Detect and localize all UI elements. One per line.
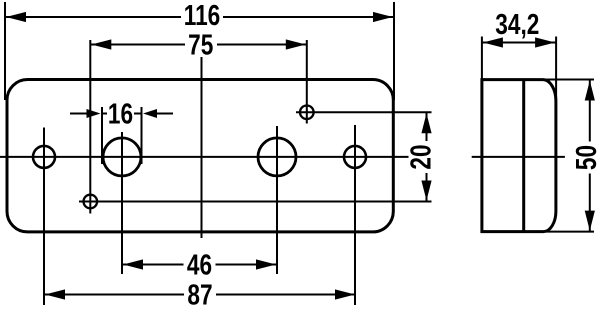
dim 16 arrow right outside	[156, 113, 173, 115]
hole H3	[258, 138, 296, 176]
dim 50 arrow up	[585, 81, 595, 101]
dim 46 label	[184, 253, 216, 277]
dim 75 arrow left	[91, 39, 111, 49]
dim 20 label rotated	[409, 141, 433, 173]
dim 34.2 arrow right	[535, 37, 555, 47]
dim 116 ext left	[4, 2, 6, 100]
svg-text:75: 75	[188, 28, 213, 61]
hole H4	[344, 146, 366, 168]
dim 87 label	[184, 283, 216, 307]
dim 34.2 arrow left	[483, 37, 503, 47]
dim 50 arrow down	[585, 211, 595, 231]
dim 34.2 ext left	[481, 37, 483, 80]
hole H1	[33, 146, 55, 168]
dim 87 arrow left	[45, 289, 65, 299]
dim 50 label rotated	[574, 142, 598, 174]
dim 20 line vertical	[426, 112, 428, 201]
dim 46 line	[122, 264, 277, 266]
dim 75 arrow right	[286, 39, 306, 49]
dim 116 arrow left	[6, 12, 26, 22]
svg-text:46: 46	[187, 248, 212, 281]
dim 16 arrow left outside	[70, 113, 88, 115]
S2 horizontal centerline / ext 20 bottom	[79, 201, 432, 203]
centerline hole H4 / ext 87 right	[354, 125, 356, 305]
dim 16 label	[107, 102, 134, 126]
side view inner line	[522, 80, 525, 232]
screw hole S2 bottom left	[84, 195, 98, 209]
svg-text:34,2: 34,2	[495, 7, 539, 40]
svg-text:87: 87	[187, 278, 212, 310]
centerline hole H2 / ext 46 left	[121, 132, 123, 274]
dim 16 ext left	[101, 107, 103, 164]
dim 46 arrow left	[123, 259, 143, 269]
dim 87 arrow right	[335, 289, 355, 299]
front view outline	[7, 80, 393, 232]
dim 50 ext bottom	[533, 231, 594, 233]
svg-text:50: 50	[569, 145, 600, 170]
hole H2 d16	[103, 138, 141, 176]
centerline hole H1 / ext 87 left	[43, 128, 45, 306]
dim 75 line	[90, 44, 306, 46]
dim 116 line	[5, 16, 394, 18]
S1 vertical centerline / ext 75 right	[306, 40, 308, 124]
dim 16 line	[102, 113, 142, 115]
S1 horizontal centerline / ext 20 top	[296, 111, 432, 113]
dim 46 arrow right	[256, 259, 276, 269]
dim 87 line	[44, 294, 356, 296]
svg-text:16: 16	[108, 97, 133, 130]
screw hole S1 top right	[300, 106, 314, 120]
dim 50 line vertical	[589, 80, 591, 232]
horizontal centerline	[0, 156, 412, 158]
dim 34.2 line	[482, 42, 556, 44]
S2 vertical centerline / ext 75 left	[89, 40, 91, 214]
dim 20 arrow up	[421, 113, 431, 133]
centerline hole H3 / ext 46 right	[276, 126, 278, 274]
side view outline	[482, 80, 556, 232]
dim 16 ext right	[141, 107, 143, 164]
dim 20 arrow down	[421, 181, 431, 201]
dim 75 label	[185, 33, 217, 57]
dim 116 arrow right	[373, 12, 393, 22]
vertical symmetry axis	[201, 57, 203, 238]
dim 34.2 ext right	[555, 37, 557, 102]
dim 50 ext top	[545, 79, 594, 81]
dim 116 label	[181, 5, 223, 29]
dim 116 ext right	[393, 2, 395, 100]
svg-text:20: 20	[404, 144, 437, 169]
side view centerline	[472, 156, 565, 158]
